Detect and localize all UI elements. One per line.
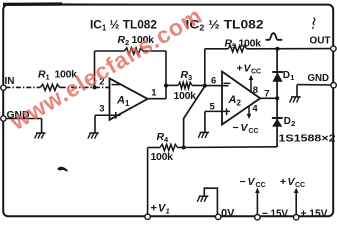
svg-text:3: 3 xyxy=(99,104,104,115)
svg-text:4: 4 xyxy=(252,104,258,115)
svg-text:1: 1 xyxy=(125,99,130,108)
svg-text:3: 3 xyxy=(188,73,192,82)
svg-text:D: D xyxy=(283,70,290,81)
svg-text:GND: GND xyxy=(308,73,330,84)
svg-text:−: − xyxy=(240,176,246,188)
svg-text:6: 6 xyxy=(211,75,216,86)
svg-text:2: 2 xyxy=(237,99,242,108)
svg-text:V: V xyxy=(241,122,249,134)
svg-text:+: + xyxy=(151,203,157,215)
svg-text:CC: CC xyxy=(295,182,305,189)
svg-text:2: 2 xyxy=(291,119,295,128)
svg-text:A: A xyxy=(228,94,237,106)
svg-text:IN: IN xyxy=(5,76,15,87)
svg-text:1S1588×2: 1S1588×2 xyxy=(279,133,336,145)
svg-text:5: 5 xyxy=(232,42,236,51)
svg-text:100k: 100k xyxy=(151,151,174,163)
svg-text:CC: CC xyxy=(251,69,261,76)
svg-text:OUT: OUT xyxy=(310,36,331,47)
svg-text:100k: 100k xyxy=(239,38,262,50)
svg-text:1: 1 xyxy=(166,207,170,216)
svg-text:V: V xyxy=(248,176,256,188)
svg-text:1: 1 xyxy=(151,87,157,98)
svg-text:D: D xyxy=(284,116,291,127)
svg-text:CC: CC xyxy=(249,128,259,135)
svg-text:A: A xyxy=(116,95,125,107)
svg-text:−: − xyxy=(233,122,239,134)
svg-text:CC: CC xyxy=(256,182,266,189)
svg-text:0V: 0V xyxy=(221,208,235,220)
svg-text:100k: 100k xyxy=(174,90,197,102)
svg-text:1: 1 xyxy=(290,73,294,82)
svg-text:− 15V: − 15V xyxy=(262,208,289,220)
svg-text:+ 15V: + 15V xyxy=(301,208,329,220)
svg-text:+: + xyxy=(237,63,243,75)
svg-text:1: 1 xyxy=(46,73,50,82)
svg-text:+: + xyxy=(280,176,286,188)
svg-text:8: 8 xyxy=(253,85,258,96)
